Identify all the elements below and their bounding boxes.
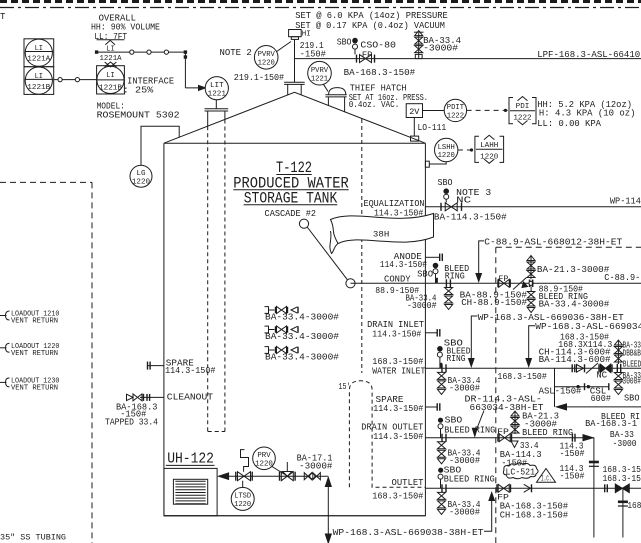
spare nozzle left	[147, 365, 164, 367]
internal heater valve row 2 BA-33.4-3000#	[265, 326, 269, 333]
svg-text:LAHH: LAHH	[480, 142, 498, 150]
vent header line	[295, 58, 641, 60]
svg-text:BA-33.4-3000#: BA-33.4-3000#	[539, 299, 610, 310]
condy line 88.9	[351, 282, 641, 284]
svg-text:-3000#: -3000#	[449, 383, 480, 394]
svg-text:VENT RETURN: VENT RETURN	[11, 385, 58, 393]
svg-text:LTSD: LTSD	[234, 493, 251, 501]
svg-text:C-88.9-ASL-668012-38H-ET: C-88.9-ASL-668012-38H-ET	[484, 236, 622, 247]
svg-text:168: 168	[627, 500, 641, 511]
svg-text:LO-111: LO-111	[418, 122, 447, 133]
svg-text:NOTE 2: NOTE 2	[220, 47, 253, 58]
svg-text:168.3-150#: 168.3-150#	[372, 490, 423, 501]
instrument PVRV-1221	[308, 61, 332, 85]
svg-text:1220: 1220	[438, 152, 455, 160]
svg-text:1221: 1221	[208, 90, 227, 98]
valve FP on outlet	[496, 484, 498, 492]
svg-text:WP-114: WP-114	[610, 196, 641, 207]
svg-text:LIT: LIT	[210, 82, 224, 90]
drain outlet line 114.3	[425, 437, 594, 439]
svg-text:-3000#: -3000#	[449, 507, 480, 518]
tank T-122 shell	[164, 143, 426, 516]
svg-text:1222: 1222	[513, 115, 532, 123]
condy nozzle flange	[445, 279, 447, 287]
instrument LG-1220	[130, 165, 152, 187]
valve 2V box	[406, 104, 422, 118]
valve 3way at heater	[235, 472, 237, 481]
control valve cloud LC-521	[503, 463, 538, 479]
svg-text:1221B: 1221B	[99, 84, 123, 92]
riser down to WP line	[325, 478, 331, 487]
control valve BA-17.1	[272, 467, 284, 475]
svg-text:BA-33.4-3000#: BA-33.4-3000#	[265, 312, 339, 323]
svg-text:PRV: PRV	[257, 452, 271, 460]
svg-text:600#: 600#	[591, 393, 612, 404]
node condy origin	[346, 279, 355, 288]
drain outlet flanges and corner down	[571, 434, 573, 442]
DBB stack above water inlet	[617, 341, 619, 364]
svg-text:1221B: 1221B	[27, 84, 51, 92]
instrument PDIT-1222	[423, 110, 445, 112]
insulation banner 38H	[331, 214, 434, 244]
shared display PDI-1222	[509, 98, 513, 124]
svg-text:DBB&B: DBB&B	[623, 348, 641, 359]
instrument LTSD-1220	[231, 487, 254, 510]
svg-text:LL: 0.00 KPA: LL: 0.00 KPA	[537, 118, 601, 129]
wire cascade to condy nozzle	[307, 227, 347, 280]
instrument stack LI-1221A/LI-1221B shared display	[24, 39, 54, 67]
svg-text:LI: LI	[35, 45, 43, 53]
instrument LSHH-1220	[435, 138, 458, 161]
svg-text:-3000#: -3000#	[423, 42, 458, 53]
instrument PVRV-1220	[254, 46, 278, 70]
svg-text:SET @ 0.17 KPA (0.4oz) VACUUM: SET @ 0.17 KPA (0.4oz) VACUUM	[295, 20, 445, 31]
svg-text:BLEED RING: BLEED RING	[444, 424, 495, 435]
instrument LI-1221A upper symbol	[97, 39, 125, 41]
riser zigzag	[241, 450, 249, 472]
node cascade #2	[299, 219, 308, 228]
svg-text:BLEED: BLEED	[623, 358, 641, 369]
drain outlet bleed valves BA-33.4	[438, 442, 446, 449]
svg-text:BA-21.3-3000#: BA-21.3-3000#	[537, 264, 610, 275]
svg-text:1220: 1220	[258, 60, 275, 68]
reducer and valve NC on water inlet	[571, 364, 573, 372]
svg-text:SBO: SBO	[438, 177, 453, 188]
outlet bleed valves BA-33.4	[438, 492, 446, 499]
svg-text:219.1-150#: 219.1-150#	[234, 72, 285, 83]
interlock triangle I.C.	[537, 469, 556, 483]
package boundary dashed left	[0, 181, 92, 183]
svg-text:1220: 1220	[255, 461, 273, 469]
package boundary dashed right	[495, 247, 497, 543]
svg-text:RING: RING	[445, 271, 465, 282]
svg-text:PVRV: PVRV	[258, 51, 276, 59]
svg-text:ROSEMOUNT 5302: ROSEMOUNT 5302	[97, 110, 180, 121]
svg-text:1220: 1220	[234, 501, 251, 509]
svg-text:1220: 1220	[132, 178, 151, 186]
wire LG-1220 to tank	[141, 126, 179, 165]
svg-text:BA-33.4-3000#: BA-33.4-3000#	[265, 352, 339, 363]
leader to drain outlet	[477, 411, 485, 430]
svg-text:2V: 2V	[409, 107, 420, 117]
svg-text:35" SS TUBING: 35" SS TUBING	[0, 533, 66, 543]
svg-text:CH-168.3-150#: CH-168.3-150#	[500, 509, 569, 520]
svg-text:BA-168.3-150#: BA-168.3-150#	[344, 67, 416, 78]
valve pair at line end	[304, 473, 312, 480]
svg-text:-150#: -150#	[560, 470, 585, 481]
svg-text:168.3-150#: 168.3-150#	[497, 371, 547, 382]
svg-text:SBO: SBO	[624, 392, 640, 403]
svg-text:CLEANOUT: CLEANOUT	[167, 392, 214, 403]
equalization line WP-114.3	[425, 206, 641, 208]
svg-text:NC: NC	[596, 369, 607, 380]
svg-text:PDIT: PDIT	[447, 104, 465, 112]
PVRV-1220 relief device	[289, 30, 302, 37]
water inlet bleed valves BA-33.4	[438, 372, 446, 379]
svg-text:NC: NC	[456, 195, 471, 206]
svg-text:-150#: -150#	[300, 49, 326, 60]
svg-text:0.4oz. VAC.: 0.4oz. VAC.	[349, 99, 400, 110]
top border dash-dot line	[0, 7, 641, 9]
spec blind on vertical	[589, 461, 599, 464]
svg-text:LPF-168.3-ASL-66410: LPF-168.3-ASL-66410	[537, 49, 640, 60]
water inlet nozzle flange	[441, 364, 443, 372]
drain leader arrow	[554, 368, 556, 407]
condy bleed valves BA-33.4	[445, 288, 453, 295]
heater supply line	[219, 473, 229, 480]
svg-text:-150#: -150#	[501, 458, 527, 469]
bleed valves below condy	[530, 287, 532, 292]
svg-text:PVRV: PVRV	[311, 67, 329, 75]
dashed equalization dip tube	[361, 119, 363, 373]
valve NC slash on condy	[513, 278, 527, 290]
svg-text:WP-168.3-ASL-669038-38H-ET: WP-168.3-ASL-669038-38H-ET	[333, 527, 484, 538]
svg-text:BLEED RING: BLEED RING	[444, 474, 495, 485]
svg-text:LSHH: LSHH	[438, 144, 455, 152]
svg-text:CSO-80: CSO-80	[360, 40, 396, 51]
svg-text:114.3-150#: 114.3-150#	[373, 403, 423, 414]
outlet line 168.3	[425, 487, 641, 489]
roof peak vent nozzle	[284, 81, 305, 83]
svg-text:OUTLET: OUTLET	[392, 477, 424, 488]
svg-text:VENT RETURN: VENT RETURN	[11, 318, 58, 326]
loadout vent return 1220	[0, 347, 7, 349]
svg-text:114.3-150#: 114.3-150#	[372, 329, 421, 340]
stack BA-21.3 above drain outlet	[514, 412, 516, 434]
internal heater valve row 1 BA-33.4-3000#	[265, 307, 269, 314]
line ASL-150 CSL	[555, 386, 609, 388]
check valve on outlet	[524, 484, 531, 492]
svg-text:BA-114.3-150#: BA-114.3-150#	[434, 212, 507, 223]
svg-text:RING: RING	[447, 353, 466, 364]
top border heavy dashed line	[0, 0, 641, 3]
svg-text:: 25%: : 25%	[123, 85, 154, 96]
vent riser	[294, 39, 296, 82]
svg-text:BLEED RING: BLEED RING	[522, 427, 573, 438]
svg-text:LI: LI	[106, 72, 114, 80]
svg-text:1221A: 1221A	[27, 56, 51, 64]
cleanout nozzle	[140, 396, 164, 398]
svg-text:C-88.9-: C-88.9-	[604, 272, 640, 283]
svg-text:LI: LI	[35, 73, 43, 81]
svg-text:-3000: -3000	[613, 438, 637, 449]
svg-text:1220: 1220	[480, 154, 499, 162]
svg-text:CONDY: CONDY	[384, 274, 411, 285]
alarm LAHH-1220	[458, 149, 475, 151]
valve closed on outlet	[615, 484, 629, 493]
svg-text:-150#: -150#	[560, 448, 585, 459]
internal heater valve row 3 BA-33.4-3000#	[265, 347, 269, 354]
bleed triangle 33.4 below drain outlet	[511, 441, 518, 448]
instrument LI-1221B interface box	[97, 66, 125, 94]
svg-text:PDI: PDI	[516, 103, 530, 111]
svg-text:114.3-150#: 114.3-150#	[373, 431, 423, 442]
signal wire LI-1221A to LIT-1221	[97, 51, 186, 53]
svg-text:CASCADE #2: CASCADE #2	[265, 208, 317, 219]
instrument LIT-1221	[215, 100, 217, 109]
svg-text:WATER INLET: WATER INLET	[372, 366, 425, 377]
svg-text:CH-88.9-150#: CH-88.9-150#	[461, 297, 527, 308]
svg-text:168.3-15: 168.3-15	[603, 473, 641, 484]
loadout vent return 1210	[0, 315, 7, 317]
instrument PRV-1220	[253, 447, 276, 470]
internal dashed outlet standpipe 15ft	[349, 381, 425, 487]
anode nozzle	[425, 256, 439, 258]
loadout vent return 1230	[0, 381, 7, 383]
svg-text:ASL-150#: ASL-150#	[539, 386, 582, 397]
svg-text:T: T	[0, 12, 6, 22]
svg-text:I.C.: I.C.	[541, 475, 552, 483]
stack below water inlet	[614, 373, 622, 380]
svg-text:BA-168.3-1: BA-168.3-1	[585, 418, 637, 429]
thief hatch	[329, 88, 346, 95]
svg-text:3000#: 3000#	[623, 375, 641, 386]
tank roof cone	[164, 92, 426, 143]
svg-text:HI: HI	[302, 31, 311, 39]
tank bottom	[164, 515, 426, 517]
vertical to bottom with spec blind	[622, 488, 624, 537]
svg-text:1221: 1221	[311, 75, 328, 83]
svg-text:-3000#: -3000#	[299, 460, 333, 471]
svg-text:114.3-150#: 114.3-150#	[165, 365, 216, 376]
svg-text:15': 15'	[339, 382, 351, 392]
wire stack to LI-1221B	[54, 79, 97, 81]
svg-text:38H: 38H	[373, 230, 389, 240]
svg-text:1222: 1222	[447, 113, 464, 121]
bleed stack BA-33.4 on vent header	[418, 33, 420, 59]
svg-text:LG: LG	[136, 170, 146, 178]
svg-text:SBO: SBO	[417, 268, 433, 279]
water inlet line 168.3	[425, 367, 641, 369]
svg-text:VENT RETURN: VENT RETURN	[11, 350, 58, 358]
svg-text:SBO: SBO	[337, 37, 352, 48]
LIT stand pipe on roof	[205, 108, 229, 110]
svg-text:-3000#: -3000#	[407, 300, 437, 311]
svg-text:BA-33.4-3000#: BA-33.4-3000#	[265, 331, 339, 342]
stilling well dashed	[207, 126, 209, 431]
svg-text:TAPPED 33.4: TAPPED 33.4	[105, 417, 158, 428]
stack BA-21.3 above condy	[530, 256, 532, 279]
